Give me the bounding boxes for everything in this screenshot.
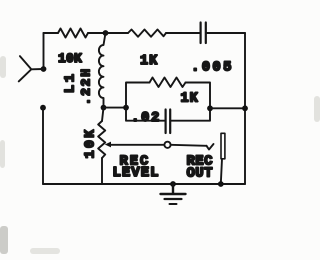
label REC LEVEL — [113, 154, 160, 181]
potentiometer wiper arrow — [105, 142, 111, 148]
scan noise smudges (decorative) — [0, 56, 320, 254]
value label 1K top — [140, 54, 158, 69]
label REC OUT — [187, 154, 214, 182]
wire C1 to right rail — [207, 32, 245, 34]
value label .005 — [191, 60, 234, 76]
wire box left edge up — [126, 83, 150, 108]
node E parallel-network right — [207, 105, 213, 111]
wire node C to box left node — [104, 107, 127, 109]
wire node B to R2 — [106, 32, 129, 34]
wire right rail vertical — [244, 33, 246, 184]
wire node E to right rail — [210, 107, 245, 109]
inductor L1 — [99, 33, 106, 108]
node A input hot terminal — [41, 66, 47, 72]
reference label L1 (rotated) — [63, 71, 79, 93]
potentiometer R4 10K body — [98, 121, 105, 158]
capacitor C2 .02 — [166, 110, 171, 134]
wire R2 to C1 — [166, 32, 200, 34]
wire node C to potentiometer top — [102, 108, 104, 121]
wire top rail left segment — [44, 32, 59, 34]
wire potentiometer bottom to ground rail — [101, 158, 103, 184]
svg-text:LEVEL: LEVEL — [113, 165, 160, 181]
wire bottom rail — [43, 183, 245, 185]
node G input ground terminal — [40, 105, 46, 111]
wire terminal circle to jack contact — [171, 145, 207, 146]
node F right rail junction — [242, 105, 248, 111]
wire top-left vertical from input node to top rail — [43, 33, 45, 69]
ground symbol — [161, 184, 186, 204]
node H ground junction — [170, 181, 176, 187]
resistor R3 1K — [150, 78, 186, 88]
resistor R2 1K — [128, 30, 166, 37]
wire box right edge down — [186, 83, 211, 109]
svg-text:10K: 10K — [84, 128, 99, 159]
svg-text:1K: 1K — [181, 92, 199, 107]
value label 10K pot (rotated) — [84, 128, 99, 159]
value label .22H (rotated) — [78, 67, 93, 105]
terminal circle REC LEVEL out — [164, 142, 170, 148]
node C inductor bottom junction — [101, 105, 107, 111]
wire wiper to terminal circle — [111, 144, 165, 146]
value label 1K box — [181, 92, 199, 107]
wire box lower-left branch — [126, 108, 165, 121]
value label .02 — [131, 110, 161, 126]
connector J1 input fork — [19, 56, 44, 81]
wire jack tip to ground rail — [221, 159, 222, 184]
jack J2 switch contact hook — [207, 144, 214, 150]
svg-text:.005: .005 — [191, 60, 234, 76]
wire box lower-right branch — [171, 108, 210, 120]
node D parallel-network left — [123, 105, 129, 111]
svg-text:1K: 1K — [140, 54, 158, 69]
svg-text:10K: 10K — [58, 51, 82, 66]
node B top junction — [103, 30, 109, 36]
capacitor C1 .005 — [201, 23, 206, 44]
resistor R1 10K — [58, 29, 88, 38]
svg-text:.02: .02 — [131, 110, 161, 126]
wire left rail down — [42, 108, 44, 184]
svg-text:L1: L1 — [63, 71, 79, 93]
svg-text:OUT: OUT — [187, 165, 213, 181]
node I jack sleeve junction — [218, 181, 224, 187]
wire R1 to node B — [88, 32, 106, 34]
svg-text:.22H: .22H — [78, 67, 93, 105]
jack J2 tip bar — [221, 133, 225, 159]
value label 10K — [58, 51, 82, 66]
